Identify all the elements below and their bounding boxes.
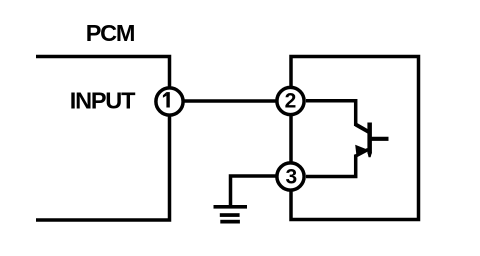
svg-text:2: 2 [285,89,297,112]
PCM module box (open on left) [36,57,170,221]
node 2 [277,87,304,114]
wire node1 to node2 [170,99,291,103]
wire node3 to ground [231,176,276,206]
wire node2 to transistor collector [306,101,356,126]
component outline box [291,57,419,220]
svg-text:PCM: PCM [86,20,135,46]
node 1 [156,88,183,115]
svg-text:INPUT: INPUT [70,88,136,114]
node 3 [277,163,304,190]
wire node3 to transistor emitter [306,155,356,177]
ground [214,205,248,224]
transistor Q1 [355,123,388,158]
svg-text:3: 3 [285,165,297,188]
